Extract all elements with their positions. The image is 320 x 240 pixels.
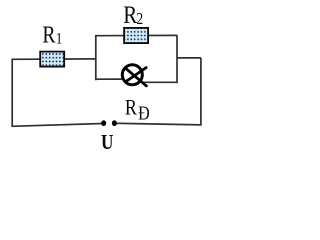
node A — [95, 35, 97, 80]
wire — [116, 123, 202, 125]
terminal dot — [101, 120, 106, 126]
svg-text:Đ: Đ — [138, 102, 150, 124]
node B — [176, 35, 178, 83]
svg-text:2: 2 — [136, 10, 143, 29]
wire — [177, 57, 201, 59]
svg-text:U: U — [101, 131, 114, 151]
svg-text:R: R — [123, 1, 137, 29]
resistor R2 — [124, 28, 148, 43]
wire — [143, 81, 178, 83]
svg-text:R: R — [125, 96, 138, 120]
wire — [11, 124, 102, 127]
wire — [200, 58, 202, 125]
wire — [11, 58, 95, 60]
resistor R1 — [40, 52, 64, 67]
lamp RD — [122, 65, 146, 86]
svg-text:R: R — [42, 21, 55, 48]
wire — [96, 34, 177, 36]
svg-text:1: 1 — [56, 30, 63, 47]
wire — [11, 59, 13, 126]
wire — [96, 78, 123, 80]
terminal dot — [112, 120, 117, 126]
